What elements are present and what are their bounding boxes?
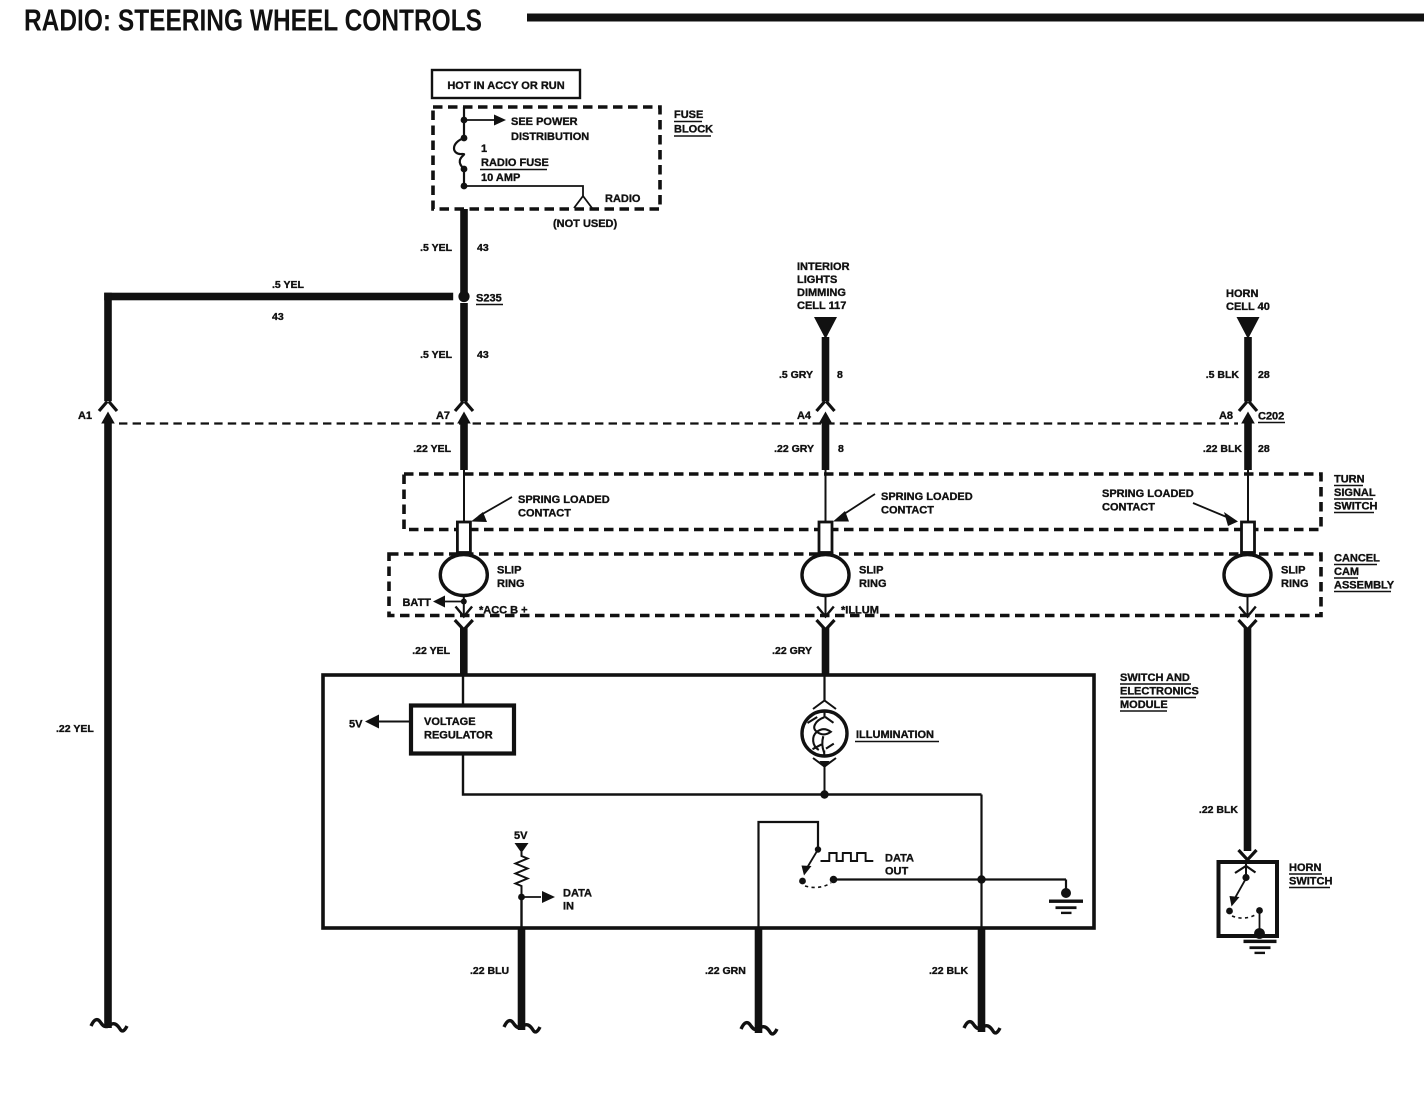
svg-text:RING: RING <box>1281 578 1309 590</box>
wire .22 blk below module <box>978 928 986 1032</box>
svg-text:RING: RING <box>859 578 887 590</box>
svg-text:.22 BLU: .22 BLU <box>470 965 509 977</box>
svg-text:.22 YEL: .22 YEL <box>56 723 94 735</box>
svg-text:CAM: CAM <box>1334 566 1359 578</box>
svg-text:BATT: BATT <box>402 597 431 609</box>
wire data in arrow <box>522 896 542 898</box>
svg-text:.5 BLK: .5 BLK <box>1206 369 1240 381</box>
svg-text:VOLTAGE: VOLTAGE <box>424 716 476 728</box>
wire thin gry inside switch <box>825 468 827 522</box>
svg-text:SLIP: SLIP <box>859 565 883 577</box>
node data in junction <box>518 894 525 901</box>
svg-text:.22 BLK: .22 BLK <box>1203 443 1243 455</box>
svg-text:.5 YEL: .5 YEL <box>420 242 452 254</box>
svg-text:8: 8 <box>838 443 844 455</box>
svg-text:DISTRIBUTION: DISTRIBUTION <box>511 131 589 143</box>
svg-text:REGULATOR: REGULATOR <box>424 730 493 742</box>
svg-text:SWITCH: SWITCH <box>1334 501 1377 513</box>
svg-text:A1: A1 <box>78 410 92 422</box>
wire batt branch <box>463 596 465 602</box>
svg-text:28: 28 <box>1258 443 1270 455</box>
wire 5v output left <box>377 721 411 723</box>
wire blk riser <box>980 795 982 929</box>
wire data out line <box>834 878 1067 880</box>
wire .22 BLK <box>1244 419 1252 470</box>
slip ring 2 <box>802 555 849 596</box>
svg-text:10 AMP: 10 AMP <box>481 172 520 184</box>
title rule bar <box>527 14 1424 22</box>
wire left branch vertical upper <box>104 293 112 402</box>
switch S2 horn <box>1245 864 1247 878</box>
wire fuse feed vertical <box>463 107 465 139</box>
wire to radio terminal <box>464 186 583 196</box>
node fuse top <box>461 117 468 124</box>
wire thin blk inside switch <box>1247 468 1249 522</box>
svg-text:43: 43 <box>477 349 489 361</box>
switch and electronics module box <box>323 675 1094 928</box>
svg-text:43: 43 <box>272 311 284 323</box>
wire .22 blu below module <box>518 928 526 1030</box>
svg-text:.5 YEL: .5 YEL <box>420 349 452 361</box>
svg-text:*ILLUM: *ILLUM <box>841 605 879 617</box>
svg-text:LIGHTS: LIGHTS <box>797 274 837 286</box>
svg-text:DATA: DATA <box>563 888 592 900</box>
svg-text:IN: IN <box>563 901 574 913</box>
svg-text:SLIP: SLIP <box>497 565 521 577</box>
svg-text:HORN: HORN <box>1226 288 1258 300</box>
wire break left bottom <box>91 1020 127 1031</box>
svg-text:MODULE: MODULE <box>1120 699 1168 711</box>
svg-text:5V: 5V <box>514 830 528 842</box>
svg-text:RADIO: RADIO <box>605 193 641 205</box>
svg-text:.22 GRY: .22 GRY <box>772 645 812 657</box>
svg-text:BLOCK: BLOCK <box>674 124 713 136</box>
svg-text:A7: A7 <box>436 410 450 422</box>
svg-text:S235: S235 <box>476 293 502 305</box>
wire .5 YEL below S235 <box>460 303 468 402</box>
terminal acc b+ down arrow <box>463 602 465 616</box>
wire grn riser <box>759 822 819 928</box>
svg-text:SPRING LOADED: SPRING LOADED <box>1102 488 1194 500</box>
terminal RADIO (not used) <box>574 196 592 208</box>
svg-text:FUSE: FUSE <box>674 109 703 121</box>
svg-text:RING: RING <box>497 578 525 590</box>
svg-text:28: 28 <box>1258 369 1270 381</box>
svg-text:8: 8 <box>837 369 843 381</box>
svg-text:.22 YEL: .22 YEL <box>412 645 450 657</box>
connector A7 <box>455 402 473 412</box>
wire see power distribution <box>464 119 494 121</box>
ground module internal <box>1065 880 1067 892</box>
wire .5 YEL fuse to S235 <box>460 209 468 297</box>
voltage regulator U1 <box>411 706 514 754</box>
horn switch box <box>1219 862 1278 936</box>
svg-text:*ACC B +: *ACC B + <box>479 605 528 617</box>
ground horn switch <box>1254 928 1265 939</box>
terminal illum down arrow <box>825 596 827 616</box>
svg-text:SPRING LOADED: SPRING LOADED <box>518 494 610 506</box>
connector line C202 dashed <box>119 422 1238 424</box>
svg-text:DATA: DATA <box>885 853 914 865</box>
wire .22 grn below module <box>755 928 763 1033</box>
svg-text:CONTACT: CONTACT <box>1102 502 1155 514</box>
svg-text:TURN: TURN <box>1334 474 1365 486</box>
wire .5 YEL horizontal to left branch <box>104 293 453 301</box>
svg-text:CELL 40: CELL 40 <box>1226 301 1270 313</box>
svg-text:CANCEL: CANCEL <box>1334 553 1380 565</box>
svg-text:1: 1 <box>481 143 487 155</box>
spring loaded contact 3 <box>1242 522 1255 553</box>
svg-text:.22 BLK: .22 BLK <box>1199 804 1239 816</box>
wire .5 GRY <box>822 337 830 402</box>
svg-text:ASSEMBLY: ASSEMBLY <box>1334 580 1395 592</box>
wire break blk <box>964 1022 1000 1033</box>
svg-text:ELECTRONICS: ELECTRONICS <box>1120 686 1199 698</box>
svg-text:A8: A8 <box>1219 410 1233 422</box>
turn signal switch dashed box <box>404 474 1321 530</box>
svg-text:SLIP: SLIP <box>1281 565 1305 577</box>
slip ring 1 <box>440 555 487 596</box>
svg-text:DIMMING: DIMMING <box>797 287 846 299</box>
wire break grn <box>741 1023 777 1034</box>
wire .22 YEL to turn signal switch <box>460 419 468 470</box>
svg-text:INTERIOR: INTERIOR <box>797 261 850 273</box>
terminal horn down arrow <box>1247 596 1249 616</box>
svg-text:.5 YEL: .5 YEL <box>272 279 304 291</box>
svg-text:RADIO FUSE: RADIO FUSE <box>481 157 549 169</box>
lamp illumination <box>823 675 825 700</box>
svg-text:SIGNAL: SIGNAL <box>1334 487 1376 499</box>
wire .5 BLK <box>1244 337 1252 402</box>
svg-text:.22 GRN: .22 GRN <box>705 965 746 977</box>
wire regulator to bus <box>463 753 982 795</box>
wire .22 gry to module <box>822 628 830 675</box>
svg-text:CONTACT: CONTACT <box>881 505 934 517</box>
connector A1 <box>99 402 117 412</box>
svg-text:RADIO: STEERING WHEEL CONTROLS: RADIO: STEERING WHEEL CONTROLS <box>24 3 482 38</box>
svg-text:SWITCH AND: SWITCH AND <box>1120 672 1190 684</box>
svg-text:A4: A4 <box>797 410 812 422</box>
svg-text:SEE POWER: SEE POWER <box>511 116 578 128</box>
node data out blk junction <box>977 875 985 883</box>
svg-text:C202: C202 <box>1258 411 1284 423</box>
waveform data out <box>821 853 874 861</box>
spring loaded contact 1 <box>457 522 470 553</box>
svg-text:.22 BLK: .22 BLK <box>929 965 969 977</box>
wire horn to ground <box>1259 911 1261 932</box>
connector A8 <box>1239 402 1257 412</box>
svg-text:.22 GRY: .22 GRY <box>774 443 814 455</box>
svg-text:ILLUMINATION: ILLUMINATION <box>856 729 934 741</box>
connector A4 <box>817 402 835 412</box>
svg-text:.5 GRY: .5 GRY <box>779 369 813 381</box>
spring loaded contact 2 <box>819 522 832 553</box>
svg-text:(NOT USED): (NOT USED) <box>553 218 618 230</box>
svg-text:HOT IN ACCY OR RUN: HOT IN ACCY OR RUN <box>447 80 564 92</box>
wire yel into voltage regulator <box>462 675 464 707</box>
slip ring 3 <box>1224 555 1271 596</box>
svg-text:43: 43 <box>477 242 489 254</box>
hot in accy or run box <box>432 70 580 98</box>
svg-text:OUT: OUT <box>885 866 909 878</box>
svg-text:5V: 5V <box>349 719 363 731</box>
wire thin yel inside switch <box>463 468 465 522</box>
wire data in to module edge <box>520 897 522 928</box>
fuse block dashed box <box>433 107 660 209</box>
wire .22 YEL long left vertical <box>104 419 112 1028</box>
wire .22 blk to horn switch <box>1244 628 1252 851</box>
fuse F1 RADIO FUSE 10 AMP <box>461 135 468 142</box>
node fuse output <box>461 183 468 190</box>
svg-text:SPRING LOADED: SPRING LOADED <box>881 491 973 503</box>
wire break blu <box>504 1021 540 1032</box>
svg-text:CONTACT: CONTACT <box>518 508 571 520</box>
svg-text:HORN: HORN <box>1289 862 1321 874</box>
connector chevron horn switch <box>1239 850 1257 860</box>
node S235 <box>458 291 469 302</box>
connector chevron yel below cancel cam <box>455 620 473 630</box>
connector chevron gry below cancel cam <box>817 620 835 630</box>
svg-text:CELL 117: CELL 117 <box>797 300 846 312</box>
switch S1 data out <box>815 846 821 852</box>
svg-text:.22 YEL: .22 YEL <box>413 443 451 455</box>
node lamp to bus <box>820 790 828 798</box>
wire .22 GRY <box>822 419 830 470</box>
connector chevron blk below cancel cam <box>1239 620 1257 630</box>
wire .22 yel to module <box>460 628 468 675</box>
cancel cam assembly dashed box <box>389 554 1321 616</box>
svg-text:SWITCH: SWITCH <box>1289 876 1332 888</box>
